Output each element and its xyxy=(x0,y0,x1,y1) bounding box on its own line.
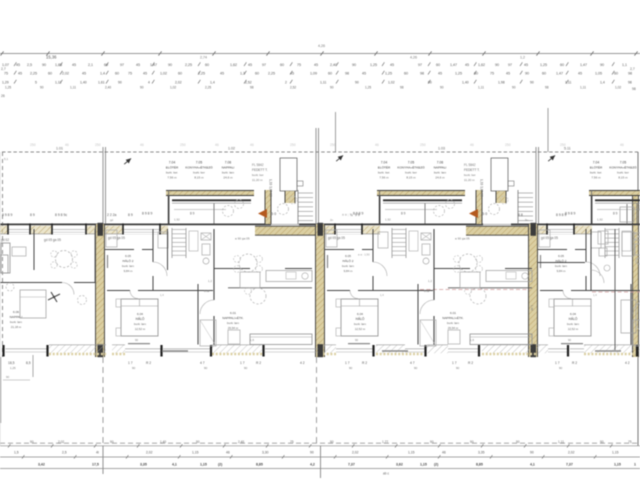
party wall x=320 upper thin lines xyxy=(315,128,317,224)
svg-text:a 90 ga 05: a 90 ga 05 xyxy=(235,237,250,241)
svg-text:3,35: 3,35 xyxy=(478,451,485,455)
svg-text:1,47: 1,47 xyxy=(580,63,587,67)
svg-text:60: 60 xyxy=(48,72,52,76)
svg-text:8 9 8 9: 8 9 8 9 xyxy=(2,213,12,217)
svg-text:60: 60 xyxy=(560,63,564,67)
attic ladder / shelving stack xyxy=(171,228,173,258)
svg-text:8 8: 8 8 xyxy=(518,213,523,217)
svg-text:45: 45 xyxy=(314,63,318,67)
svg-text:2,1: 2,1 xyxy=(88,63,93,67)
svg-text:98: 98 xyxy=(628,81,632,85)
left edge tick details xyxy=(0,152,1,446)
svg-text:burk: lam: burk: lam xyxy=(567,322,579,326)
svg-text:250: 250 xyxy=(290,143,296,147)
svg-text:8 9: 8 9 xyxy=(613,212,618,216)
svg-text:46: 46 xyxy=(375,143,379,147)
svg-text:24,6 m: 24,6 m xyxy=(223,176,233,180)
svg-text:90: 90 xyxy=(349,366,353,370)
svg-text:2: 2 xyxy=(285,81,287,85)
svg-text:90: 90 xyxy=(525,72,529,76)
party wall dashes below plan xyxy=(102,357,104,446)
svg-text:1: 1 xyxy=(634,463,636,467)
left unit interior wall vertical xyxy=(33,229,35,270)
facade wall hatched body xyxy=(0,226,168,234)
top-left room divider wall xyxy=(538,249,567,251)
svg-text:90: 90 xyxy=(244,366,248,370)
bottom dim line 3 xyxy=(0,468,640,470)
svg-text:98: 98 xyxy=(400,86,404,90)
svg-text:1,15: 1,15 xyxy=(614,463,621,467)
svg-text:R 2: R 2 xyxy=(256,361,261,365)
svg-text:burk: lam: burk: lam xyxy=(227,321,239,325)
svg-text:60: 60 xyxy=(255,72,259,76)
bottom wall tan dotted sill xyxy=(49,353,106,355)
porch back wall dark line xyxy=(172,199,251,201)
bottom dashed boundary xyxy=(0,442,640,444)
radiator line xyxy=(348,343,370,345)
svg-text:1,09: 1,09 xyxy=(310,72,317,76)
svg-text:HÁLÓ: HÁLÓ xyxy=(569,316,578,321)
svg-text:NAPPALI: NAPPALI xyxy=(222,166,235,170)
svg-text:2,25: 2,25 xyxy=(185,63,192,67)
svg-text:60: 60 xyxy=(178,72,182,76)
svg-text:1 7: 1 7 xyxy=(128,361,133,365)
svg-text:46: 46 xyxy=(215,143,219,147)
party wall dark bar at facade xyxy=(98,223,104,236)
svg-text:1,92: 1,92 xyxy=(174,218,180,222)
svg-text:7.06: 7.06 xyxy=(437,161,444,165)
svg-text:= = : ¾: = = : ¾ xyxy=(342,213,353,217)
bottom wall windows xyxy=(6,348,48,350)
svg-text:250: 250 xyxy=(420,143,426,147)
svg-text:90: 90 xyxy=(6,375,10,379)
left unit sofa xyxy=(1,243,10,273)
svg-text:90: 90 xyxy=(132,366,136,370)
small wall mid right xyxy=(448,287,532,289)
svg-text:24,6 m: 24,6 m xyxy=(435,176,445,180)
porch hatched pier xyxy=(265,190,271,224)
svg-text:15,36: 15,36 xyxy=(46,55,57,60)
svg-text:4,1: 4,1 xyxy=(530,463,535,467)
svg-text:burk: lam: burk: lam xyxy=(122,264,134,268)
svg-text:6.04: 6.04 xyxy=(137,312,143,316)
svg-text:4 7: 4 7 xyxy=(410,361,415,365)
svg-text:burk: lam: burk: lam xyxy=(222,171,235,175)
porch left wall xyxy=(591,196,593,224)
svg-text:HÁLÓ 2: HÁLÓ 2 xyxy=(342,258,353,263)
svg-text:45: 45 xyxy=(248,63,252,67)
top-left room divider wall xyxy=(105,249,134,251)
svg-text:90: 90 xyxy=(135,338,139,342)
closet by party wall xyxy=(106,230,117,247)
svg-text:R 2: R 2 xyxy=(468,361,473,365)
svg-text:90: 90 xyxy=(168,63,172,67)
bottom dim line 2 xyxy=(0,456,640,458)
party wall dark bar at bottom wall xyxy=(98,344,104,357)
svg-text:90: 90 xyxy=(568,338,572,342)
svg-text:60: 60 xyxy=(328,72,332,76)
svg-text:2,25: 2,25 xyxy=(268,72,275,76)
svg-text:1,11: 1,11 xyxy=(70,86,76,90)
svg-text:1,1: 1,1 xyxy=(622,63,627,67)
svg-text:1 7: 1 7 xyxy=(240,361,245,365)
svg-text:60: 60 xyxy=(542,72,546,76)
svg-text:ELŐTÉR: ELŐTÉR xyxy=(166,165,179,170)
facade line lighter at porch doors xyxy=(271,223,299,225)
porch plant circles xyxy=(223,206,234,217)
svg-text:2,02: 2,02 xyxy=(146,451,153,455)
wardrobe xyxy=(633,320,640,346)
svg-text:1,48: 1,48 xyxy=(530,305,534,311)
svg-text:1,5: 1,5 xyxy=(14,451,19,455)
svg-text:6.02: 6.02 xyxy=(204,289,210,293)
svg-text:90: 90 xyxy=(600,63,604,67)
svg-text:1,25: 1,25 xyxy=(540,63,547,67)
svg-text:6.04: 6.04 xyxy=(357,312,363,316)
svg-text:1,15: 1,15 xyxy=(612,451,619,455)
svg-text:7.06: 7.06 xyxy=(225,161,232,165)
svg-text:1,11: 1,11 xyxy=(565,81,571,85)
svg-text:2,02: 2,02 xyxy=(568,451,575,455)
closet by party wall xyxy=(326,230,337,247)
porch back wall dark line xyxy=(595,199,640,201)
svg-text:ab c: ab c xyxy=(383,472,389,476)
left unit door arc xyxy=(62,283,74,295)
svg-text:90: 90 xyxy=(42,63,46,67)
svg-text:4 2: 4 2 xyxy=(625,361,630,365)
svg-text:1,98: 1,98 xyxy=(498,81,505,85)
svg-text:6.05: 6.05 xyxy=(345,254,351,258)
left unit table dashed xyxy=(56,251,73,268)
svg-text:75: 75 xyxy=(628,440,632,444)
radiator marks xyxy=(595,350,621,352)
entry arrow xyxy=(258,209,267,218)
svg-text:90: 90 xyxy=(355,81,359,85)
svg-text:2 2 2a: 2 2 2a xyxy=(107,213,117,217)
left unit wall v2 xyxy=(94,229,96,282)
svg-text:12,52 m: 12,52 m xyxy=(355,327,366,331)
radiator line xyxy=(128,343,150,345)
porch insulation hatch band at x=589 xyxy=(589,191,640,196)
party wall extensions through bottom dim strip xyxy=(102,446,104,474)
svg-text:4,26: 4,26 xyxy=(410,56,417,60)
closet by party wall xyxy=(539,230,550,247)
svg-text:60: 60 xyxy=(205,63,209,67)
bldg4 pink dashed xyxy=(592,291,640,293)
bldg2 hall wall xyxy=(167,229,169,270)
svg-text:60: 60 xyxy=(280,63,284,67)
svg-text:97: 97 xyxy=(418,63,422,67)
sofa xyxy=(470,334,532,345)
svg-text:2,40: 2,40 xyxy=(238,440,244,444)
svg-text:2,02: 2,02 xyxy=(175,81,182,85)
svg-text:1,25: 1,25 xyxy=(365,86,371,90)
svg-text:1,11: 1,11 xyxy=(558,440,564,444)
svg-text:1,92: 1,92 xyxy=(597,218,603,222)
svg-text:250: 250 xyxy=(180,143,186,147)
svg-text:90: 90 xyxy=(414,366,418,370)
radiator marks xyxy=(382,350,408,352)
svg-text:NAPPALI: NAPPALI xyxy=(10,315,23,319)
svg-text:1,25: 1,25 xyxy=(385,72,392,76)
svg-text:97: 97 xyxy=(120,63,124,67)
svg-text:3,42: 3,42 xyxy=(38,463,45,467)
interior wall vertical corridor xyxy=(213,229,215,300)
svg-text:46: 46 xyxy=(65,143,69,147)
svg-text:90: 90 xyxy=(440,86,444,90)
door arcs xyxy=(153,262,167,276)
svg-text:NAPPALI+ÉTK.: NAPPALI+ÉTK. xyxy=(222,315,244,320)
svg-text:1,62: 1,62 xyxy=(478,63,485,67)
svg-text:46: 46 xyxy=(470,143,474,147)
stairs xyxy=(298,192,313,194)
svg-text:6.06: 6.06 xyxy=(13,310,19,314)
svg-text:KONYHA+ÉTKEZŐ: KONYHA+ÉTKEZŐ xyxy=(185,165,213,170)
porch door jamb xyxy=(424,204,426,224)
svg-text:1,4: 1,4 xyxy=(380,293,384,297)
svg-text:6.04: 6.04 xyxy=(570,312,576,316)
svg-text:9,84 m: 9,84 m xyxy=(124,269,133,273)
kitchen island xyxy=(460,272,480,288)
svg-text:1,02: 1,02 xyxy=(388,81,395,85)
svg-text:75: 75 xyxy=(290,440,294,444)
svg-text:6.01: 6.01 xyxy=(230,311,236,315)
svg-text:8 9 8 9c: 8 9 8 9c xyxy=(55,213,67,217)
svg-text:250: 250 xyxy=(95,143,101,147)
svg-text:45: 45 xyxy=(390,63,394,67)
svg-text:1.01: 1.01 xyxy=(56,147,63,151)
left unit armchairs xyxy=(78,296,87,305)
right edge wall xyxy=(637,152,639,446)
terrace plant circles xyxy=(278,204,289,215)
party wall x=533 upper thin lines xyxy=(535,147,537,224)
porch pier hatch right xyxy=(496,191,506,203)
kitchen counter xyxy=(266,271,312,282)
svg-text:R 2: R 2 xyxy=(362,361,367,365)
svg-text:4 7: 4 7 xyxy=(200,361,205,365)
svg-text:9,84 m: 9,84 m xyxy=(344,269,353,273)
svg-text:90: 90 xyxy=(140,86,144,90)
svg-text:1,2: 1,2 xyxy=(520,56,525,60)
svg-text:45: 45 xyxy=(82,72,86,76)
svg-text:46: 46 xyxy=(226,451,230,455)
left unit interior wall horizontal xyxy=(0,282,62,284)
svg-text:4: 4 xyxy=(148,81,150,85)
bed bottom-left xyxy=(341,299,378,336)
bldg4 right-edge closet rects xyxy=(614,229,616,350)
svg-text:burk: lam: burk: lam xyxy=(555,264,567,268)
porch dim lines xyxy=(174,209,226,211)
svg-text:5 0: 5 0 xyxy=(482,212,487,216)
porch left wall xyxy=(379,196,381,224)
section arrow symbols xyxy=(123,157,133,166)
svg-text:45: 45 xyxy=(524,63,528,67)
svg-text:90: 90 xyxy=(355,338,359,342)
svg-text:1,05: 1,05 xyxy=(595,72,602,76)
svg-text:burk: ker: burk: ker xyxy=(405,171,417,175)
svg-text:1,8: 1,8 xyxy=(250,338,254,342)
svg-text:gd 02: gd 02 xyxy=(1,238,9,242)
svg-text:5: 5 xyxy=(35,81,37,85)
svg-text:2,52: 2,52 xyxy=(290,86,296,90)
svg-text:FL 5842: FL 5842 xyxy=(464,163,476,167)
main facade wall dark line xyxy=(0,223,640,225)
svg-text:1,2: 1,2 xyxy=(208,279,212,283)
svg-text:1,29: 1,29 xyxy=(2,81,9,85)
svg-text:1,47: 1,47 xyxy=(450,63,457,67)
svg-text:1,40: 1,40 xyxy=(160,440,166,444)
porch dim lines xyxy=(597,209,640,211)
porch dim lines xyxy=(385,209,437,211)
svg-text:8,15 m: 8,15 m xyxy=(618,176,628,180)
svg-text:45: 45 xyxy=(143,72,147,76)
svg-text:1,15: 1,15 xyxy=(192,451,199,455)
svg-text:2,02: 2,02 xyxy=(58,440,64,444)
svg-text:(2): (2) xyxy=(218,463,222,467)
svg-text:a 90 ga 05: a 90 ga 05 xyxy=(455,237,470,241)
interior wall top-left room xyxy=(372,229,374,262)
bldg4 fixtures xyxy=(598,231,608,244)
svg-text:1.03: 1.03 xyxy=(438,147,445,151)
svg-text:90: 90 xyxy=(30,440,34,444)
party wall dark bar at facade xyxy=(531,223,537,236)
porch plant circles xyxy=(434,206,445,217)
svg-text:2,40: 2,40 xyxy=(105,86,111,90)
svg-text:4,2: 4,2 xyxy=(310,463,315,467)
svg-text:75: 75 xyxy=(4,72,8,76)
party wall x=533 hatched xyxy=(529,224,538,357)
party wall dashes below plan xyxy=(316,357,318,446)
svg-text:46: 46 xyxy=(442,451,446,455)
svg-text:burk: lam: burk: lam xyxy=(10,320,22,324)
svg-text:7.04: 7.04 xyxy=(169,161,176,165)
svg-text:1,92: 1,92 xyxy=(385,218,391,222)
porch door jamb xyxy=(636,204,638,224)
svg-text:8 9: 8 9 xyxy=(190,212,195,216)
interior wall bedroom divider xyxy=(197,284,199,345)
party wall dark bar at bottom wall xyxy=(318,344,324,357)
left unit fan symbol xyxy=(48,292,60,302)
svg-text:8,5: 8,5 xyxy=(26,361,31,365)
svg-text:97: 97 xyxy=(508,63,512,67)
bed bottom-left xyxy=(121,299,158,336)
svg-text:9,84 m: 9,84 m xyxy=(557,269,566,273)
svg-text:burk: ker.: burk: ker. xyxy=(590,171,603,175)
svg-text:1,25: 1,25 xyxy=(370,63,377,67)
svg-text:9u: 9u xyxy=(525,218,529,222)
corner hatch band below facade xyxy=(255,226,319,235)
bottom dim line 1 xyxy=(0,445,640,447)
wardrobe xyxy=(420,320,436,346)
porch shaft rectangle xyxy=(280,158,297,191)
radiator tick left wall xyxy=(327,255,329,268)
shower cross xyxy=(421,233,431,240)
svg-text:1,25: 1,25 xyxy=(10,366,16,370)
svg-text:250: 250 xyxy=(30,143,36,147)
facade windows xyxy=(8,226,30,235)
svg-text:45: 45 xyxy=(16,63,20,67)
svg-text:1.02: 1.02 xyxy=(228,147,235,151)
svg-text:7,56 m: 7,56 m xyxy=(591,176,601,180)
svg-text:98: 98 xyxy=(250,86,254,90)
svg-text:250: 250 xyxy=(505,143,511,147)
svg-text:26: 26 xyxy=(1,94,5,98)
left plot boundary dashed xyxy=(2,152,4,357)
svg-text:46: 46 xyxy=(140,143,144,147)
svg-text:90: 90 xyxy=(330,86,334,90)
ticks on top line xyxy=(0,51,3,55)
svg-text:17,5: 17,5 xyxy=(92,463,99,467)
stairs xyxy=(518,192,533,194)
svg-text:1,61: 1,61 xyxy=(98,81,105,85)
svg-text:2,52: 2,52 xyxy=(245,81,252,85)
right edge hatched band xyxy=(633,196,639,357)
party wall dark bar at facade xyxy=(318,223,324,236)
shower cross xyxy=(634,233,640,240)
svg-text:2n: 2n xyxy=(330,218,334,222)
svg-text:8 9: 8 9 xyxy=(128,213,133,217)
svg-text:8 9 8 9: 8 9 8 9 xyxy=(565,212,575,216)
svg-text:4,1: 4,1 xyxy=(172,463,177,467)
dining table dashed xyxy=(239,254,257,272)
svg-text:ELŐTÉR: ELŐTÉR xyxy=(378,165,391,170)
svg-text:90: 90 xyxy=(470,440,474,444)
svg-text:FEDETT T.: FEDETT T. xyxy=(252,168,268,172)
door arcs xyxy=(586,262,600,276)
svg-text:45: 45 xyxy=(578,72,582,76)
terrace plant circles xyxy=(489,204,500,215)
svg-text:1,4: 1,4 xyxy=(600,81,605,85)
bldg4 porch inner jamb xyxy=(626,204,628,224)
svg-text:60: 60 xyxy=(115,72,119,76)
svg-text:7,37: 7,37 xyxy=(348,463,355,467)
svg-text:12,52 m: 12,52 m xyxy=(135,327,146,331)
svg-text:1,4: 1,4 xyxy=(100,72,105,76)
svg-text:45: 45 xyxy=(18,72,22,76)
svg-text:9 9: 9 9 xyxy=(355,213,360,217)
svg-text:1,40: 1,40 xyxy=(80,81,87,85)
svg-text:75: 75 xyxy=(297,63,301,67)
left boundary solid below plan xyxy=(0,357,2,423)
radiator line xyxy=(561,343,583,345)
svg-text:98: 98 xyxy=(345,72,349,76)
svg-text:1,77: 1,77 xyxy=(382,440,388,444)
svg-text:46: 46 xyxy=(250,143,254,147)
svg-text:1,02: 1,02 xyxy=(615,86,621,90)
interior wall horizontal mid xyxy=(107,290,130,292)
svg-text:250: 250 xyxy=(330,143,336,147)
svg-text:gd 05 ga 05: gd 05 ga 05 xyxy=(328,236,345,240)
svg-text:burk: lam: burk: lam xyxy=(134,322,146,326)
tick slashes on dimension rows xyxy=(14,62,16,66)
svg-text:4,26: 4,26 xyxy=(318,44,325,48)
svg-text:98: 98 xyxy=(632,87,636,91)
svg-text:1,33 3,85 90: 1,33 3,85 90 xyxy=(269,179,273,197)
interior wall top-left room xyxy=(585,229,587,262)
svg-text:11,20 m: 11,20 m xyxy=(252,178,263,182)
svg-text:98: 98 xyxy=(420,72,424,76)
svg-text:FEDETT T.: FEDETT T. xyxy=(464,168,480,172)
svg-text:burk: lam: burk: lam xyxy=(354,322,366,326)
sofa xyxy=(250,334,312,345)
porch hatched pier xyxy=(476,190,482,224)
svg-text:7.05: 7.05 xyxy=(620,161,627,165)
svg-text:5.11: 5.11 xyxy=(564,147,571,151)
interior wall top-left room xyxy=(152,229,154,262)
interior wall kitchen xyxy=(214,268,250,270)
interior wall bedroom divider xyxy=(417,284,419,345)
svg-text:ELŐTÉR: ELŐTÉR xyxy=(590,165,603,170)
